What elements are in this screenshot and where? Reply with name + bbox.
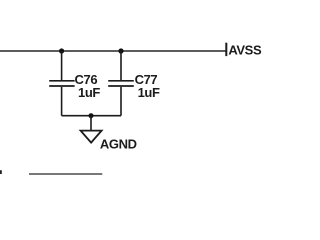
wire bottom rail joining C76 and C77: [62, 115, 121, 117]
node junction of C76 on top rail: [59, 48, 64, 53]
capacitor C76: [49, 51, 74, 116]
wire top rail from left edge to AVSS terminal: [0, 50, 226, 52]
svg-text:1uF: 1uF: [78, 85, 100, 100]
node clipped mark at bottom-left edge: [0, 170, 2, 174]
node junction to ground: [89, 113, 94, 118]
capacitor C77: [108, 51, 134, 116]
svg-text:1uF: 1uF: [138, 85, 160, 100]
svg-text:AGND: AGND: [100, 137, 137, 152]
node junction of C77 on top rail: [118, 48, 123, 53]
wire ground stub: [90, 116, 92, 131]
AVSS terminal bar: [225, 43, 227, 56]
wire edge of table border at bottom: [29, 173, 102, 175]
svg-text:AVSS: AVSS: [228, 43, 262, 58]
ground AGND symbol (open triangle): [81, 131, 102, 143]
